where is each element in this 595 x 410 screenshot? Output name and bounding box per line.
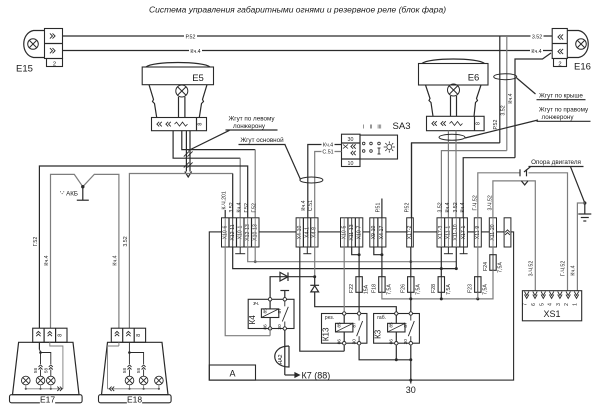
svg-text:3: 3 bbox=[556, 303, 562, 306]
svg-text:3-Ч.52: 3-Ч.52 bbox=[528, 261, 534, 277]
svg-text:Г-Ч.52: Г-Ч.52 bbox=[561, 261, 567, 277]
svg-text:8: 8 bbox=[475, 122, 481, 125]
svg-text:58: 58 bbox=[43, 368, 48, 374]
svg-text:Кч.4: Кч.4 bbox=[237, 202, 243, 212]
svg-text:Кч.4: Кч.4 bbox=[44, 255, 50, 265]
svg-text:III: III bbox=[377, 125, 381, 131]
svg-text:F18: F18 bbox=[372, 284, 378, 293]
svg-text:Кч.4: Кч.4 bbox=[190, 49, 200, 55]
svg-text:Жгут основной: Жгут основной bbox=[240, 136, 284, 144]
svg-text:Кч.4: Кч.4 bbox=[301, 200, 307, 210]
svg-text:3.52: 3.52 bbox=[453, 202, 459, 212]
svg-text:Г.52: Г.52 bbox=[244, 203, 250, 213]
svg-text:4: 4 bbox=[548, 303, 554, 306]
svg-text:85: 85 bbox=[389, 322, 395, 328]
svg-text:30: 30 bbox=[348, 137, 354, 143]
svg-text:Жгут по левому: Жгут по левому bbox=[228, 116, 275, 123]
svg-text:1: 1 bbox=[573, 303, 579, 306]
svg-text:Е16: Е16 bbox=[574, 62, 591, 73]
svg-text:Кч.4: Кч.4 bbox=[323, 143, 333, 149]
svg-text:6: 6 bbox=[531, 303, 537, 306]
svg-text:Р.51: Р.51 bbox=[376, 203, 382, 213]
svg-text:Е17: Е17 bbox=[40, 394, 55, 404]
svg-text:7,5А: 7,5А bbox=[498, 262, 504, 273]
svg-text:F22: F22 bbox=[349, 284, 355, 293]
svg-text:лонжерону: лонжерону bbox=[541, 114, 574, 121]
svg-text:Р.52: Р.52 bbox=[493, 120, 499, 130]
svg-text:Опора двигателя: Опора двигателя bbox=[531, 159, 581, 166]
svg-text:2: 2 bbox=[558, 61, 561, 67]
svg-text:58: 58 bbox=[33, 368, 38, 374]
svg-text:87: 87 bbox=[403, 322, 409, 328]
svg-text:86: 86 bbox=[389, 339, 395, 345]
svg-text:8: 8 bbox=[136, 334, 142, 337]
svg-text:10: 10 bbox=[348, 161, 354, 167]
svg-text:Г.52: Г.52 bbox=[252, 203, 258, 213]
svg-text:15А: 15А bbox=[364, 284, 370, 294]
svg-text:А: А bbox=[229, 368, 235, 378]
svg-text:рез.: рез. bbox=[325, 315, 334, 321]
svg-text:85: 85 bbox=[263, 308, 269, 314]
svg-text:3.52: 3.52 bbox=[501, 105, 507, 115]
svg-text:Жгут по крыше: Жгут по крыше bbox=[539, 93, 583, 100]
svg-text:Е6: Е6 bbox=[468, 73, 480, 84]
svg-text:87: 87 bbox=[352, 322, 358, 328]
svg-text:7: 7 bbox=[523, 303, 529, 306]
svg-text:Кч.4: Кч.4 bbox=[112, 255, 118, 265]
svg-text:Жгут по правому: Жгут по правому bbox=[539, 107, 589, 114]
svg-text:7,5А: 7,5А bbox=[415, 284, 421, 295]
svg-text:30: 30 bbox=[277, 324, 283, 330]
svg-text:87: 87 bbox=[277, 308, 283, 314]
svg-text:I: I bbox=[363, 125, 364, 131]
svg-text:НА2: НА2 bbox=[278, 354, 284, 364]
svg-text:Е5: Е5 bbox=[192, 73, 204, 84]
svg-text:2: 2 bbox=[564, 303, 570, 306]
svg-text:Кч.4: Кч.4 bbox=[571, 265, 577, 275]
svg-text:5: 5 bbox=[539, 303, 545, 306]
svg-text:габ.: габ. bbox=[377, 315, 386, 321]
svg-text:II: II bbox=[370, 125, 373, 131]
svg-text:лонжерону: лонжерону bbox=[233, 123, 266, 130]
svg-text:3.52: 3.52 bbox=[437, 202, 443, 212]
svg-text:7,5А: 7,5А bbox=[387, 284, 393, 295]
svg-text:86: 86 bbox=[263, 324, 269, 330]
svg-text:F23: F23 bbox=[468, 284, 474, 293]
svg-text:58: 58 bbox=[122, 368, 127, 374]
svg-text:зч.: зч. bbox=[253, 301, 259, 307]
svg-text:Е18: Е18 bbox=[127, 394, 142, 404]
svg-text:Система управления габаритными: Система управления габаритными огнями и … bbox=[149, 5, 446, 15]
svg-text:Р.52: Р.52 bbox=[186, 34, 196, 40]
svg-text:С.51: С.51 bbox=[308, 200, 314, 211]
svg-text:7,5А: 7,5А bbox=[446, 284, 452, 295]
svg-text:F26: F26 bbox=[401, 284, 407, 293]
svg-text:F28: F28 bbox=[431, 284, 437, 293]
svg-text:86: 86 bbox=[337, 339, 343, 345]
svg-text:XS1: XS1 bbox=[543, 309, 560, 319]
svg-text:Кч.4: Кч.4 bbox=[460, 202, 466, 212]
svg-text:Кч.4: Кч.4 bbox=[508, 93, 514, 103]
svg-text:SA3: SA3 bbox=[393, 121, 411, 132]
svg-text:3.52: 3.52 bbox=[532, 34, 542, 40]
svg-text:58: 58 bbox=[136, 368, 141, 374]
svg-text:К7 (88): К7 (88) bbox=[302, 371, 331, 381]
svg-text:К13: К13 bbox=[322, 327, 331, 341]
svg-text:30: 30 bbox=[406, 385, 416, 395]
svg-text:'-' АКБ: '-' АКБ bbox=[60, 191, 78, 198]
svg-text:Г.52: Г.52 bbox=[33, 237, 39, 247]
svg-text:F24: F24 bbox=[483, 262, 489, 271]
svg-text:30: 30 bbox=[352, 339, 358, 345]
svg-text:30: 30 bbox=[403, 339, 409, 345]
svg-text:85: 85 bbox=[337, 322, 343, 328]
svg-text:К4: К4 bbox=[248, 315, 257, 325]
svg-text:К-Ч.201: К-Ч.201 bbox=[222, 191, 228, 209]
svg-text:Е15: Е15 bbox=[16, 64, 33, 75]
svg-text:К3: К3 bbox=[374, 329, 383, 339]
svg-text:3.52: 3.52 bbox=[229, 202, 235, 212]
svg-text:8: 8 bbox=[57, 334, 63, 337]
svg-text:Р.52: Р.52 bbox=[405, 203, 411, 213]
svg-text:С.51: С.51 bbox=[322, 150, 333, 156]
svg-text:8: 8 bbox=[197, 123, 203, 126]
svg-text:Х4-1: Х4-1 bbox=[304, 227, 310, 238]
svg-text:Кч.4: Кч.4 bbox=[445, 202, 451, 212]
svg-text:7,5А: 7,5А bbox=[482, 284, 488, 295]
svg-text:Х17-2: Х17-2 bbox=[407, 225, 413, 239]
svg-text:3.52: 3.52 bbox=[123, 236, 129, 246]
svg-text:Кч.4: Кч.4 bbox=[531, 49, 541, 55]
svg-text:2: 2 bbox=[53, 61, 56, 67]
